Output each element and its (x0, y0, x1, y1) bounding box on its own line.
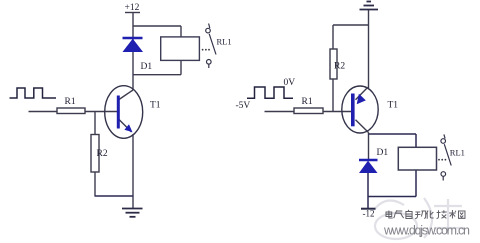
svg-text:T1: T1 (150, 101, 161, 111)
svg-text:T1: T1 (388, 101, 399, 111)
svg-text:0V: 0V (284, 78, 296, 88)
svg-text:R2: R2 (334, 62, 345, 72)
svg-text:D1: D1 (141, 62, 153, 72)
svg-text:www.dqjsw.com.cn: www.dqjsw.com.cn (383, 224, 470, 238)
svg-text:-12: -12 (363, 209, 375, 219)
svg-text:R2: R2 (97, 149, 108, 159)
svg-text:RL1: RL1 (450, 148, 465, 158)
svg-text:R1: R1 (302, 97, 313, 107)
svg-text:R1: R1 (65, 97, 76, 107)
svg-text:RL1: RL1 (217, 37, 232, 47)
svg-text:+12: +12 (125, 3, 140, 13)
svg-text:D1: D1 (377, 148, 389, 158)
svg-text:-5V: -5V (236, 101, 251, 111)
